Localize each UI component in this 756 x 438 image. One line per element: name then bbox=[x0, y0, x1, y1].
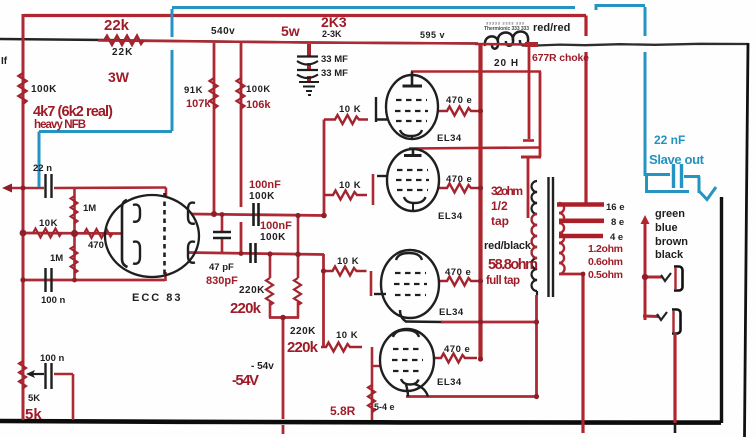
grid lead V1 bbox=[376, 97, 388, 122]
tap 4 ohm bbox=[559, 234, 603, 239]
svg-text:red/red: red/red bbox=[533, 22, 570, 34]
resistor 22K 3W (red overdrawn zigzag) bbox=[104, 36, 144, 45]
svg-text:220K: 220K bbox=[239, 285, 265, 296]
svg-text:470 e: 470 e bbox=[444, 344, 470, 355]
inductor choke 20H bbox=[485, 32, 528, 49]
wire: secondary bottom to ground x583 bbox=[559, 273, 583, 276]
svg-text:1.2ohm: 1.2ohm bbox=[588, 243, 623, 255]
resistor 1M x2 vertical bbox=[73, 189, 76, 280]
svg-text:540v: 540v bbox=[211, 26, 235, 37]
wire: transformer primary bottom drop bbox=[535, 295, 538, 397]
svg-text:10K: 10K bbox=[39, 218, 58, 229]
svg-text:heavy NFB: heavy NFB bbox=[34, 119, 86, 131]
svg-text:470: 470 bbox=[88, 240, 104, 251]
svg-text:220K: 220K bbox=[290, 326, 316, 337]
ground symbol bbox=[299, 82, 319, 95]
svg-text:ECC 83: ECC 83 bbox=[132, 292, 183, 304]
wire: to jack1 bbox=[645, 276, 663, 279]
feedback line y233 with 10K and 470 bbox=[23, 232, 121, 235]
svg-text:830pF: 830pF bbox=[206, 275, 238, 287]
blue output check arrow bbox=[699, 187, 716, 200]
capacitor 100nF/100K coupling (wire A) bbox=[252, 203, 255, 226]
wire: tube4 bottom line y396 bbox=[406, 395, 537, 398]
svg-text:black: black bbox=[655, 249, 684, 261]
svg-text:If: If bbox=[1, 56, 8, 67]
speaker jack 2 bbox=[672, 310, 681, 334]
svg-text:595 v: 595 v bbox=[420, 30, 445, 40]
wire: red top rail y15 bbox=[24, 14, 586, 17]
svg-text:EL34: EL34 bbox=[438, 211, 463, 222]
svg-text:red/black: red/black bbox=[484, 240, 532, 252]
speaker jack 1 bbox=[674, 267, 683, 291]
grid lead V3 bbox=[374, 293, 386, 295]
resistor 10K g1 bbox=[324, 115, 368, 124]
wire: pot cap to ground bbox=[54, 373, 73, 376]
svg-text:8 e: 8 e bbox=[611, 217, 624, 228]
wire: drop to transformer primary bbox=[527, 157, 530, 218]
capacitor 100n cathode bypass bbox=[44, 268, 46, 292]
blue NFB horizontal y131 bbox=[39, 130, 172, 133]
ECC83 inner bracket upper bbox=[133, 205, 140, 222]
svg-text:4k7 (6k2 real): 4k7 (6k2 real) bbox=[33, 104, 113, 120]
svg-text:107k: 107k bbox=[186, 98, 211, 110]
svg-text:brown: brown bbox=[655, 236, 688, 248]
svg-text:16 e: 16 e bbox=[606, 202, 625, 213]
svg-text:1M: 1M bbox=[50, 253, 63, 264]
resistor 220K right bbox=[297, 254, 300, 278]
capacitor 33MF x2 with feed wire bbox=[307, 44, 311, 56]
svg-text:58.8ohm: 58.8ohm bbox=[488, 257, 538, 273]
capacitor 47pF/830pF bridge bbox=[221, 214, 224, 231]
svg-text:10 K: 10 K bbox=[337, 256, 359, 267]
wire: y322 red to transformer bottom bbox=[441, 321, 537, 324]
tube EL34 V2 bbox=[377, 149, 439, 212]
svg-text:22 nF: 22 nF bbox=[654, 133, 685, 147]
svg-text:22k: 22k bbox=[104, 17, 130, 34]
wire: to jack2 bbox=[643, 315, 659, 319]
svg-text:100nF: 100nF bbox=[249, 179, 281, 191]
wire: tube1 anode line y71 bbox=[411, 70, 541, 73]
wire: red right drop from top rail to 16ohm tap bbox=[584, 16, 587, 37]
resistor 220K left bbox=[269, 254, 272, 278]
blue slave out network bbox=[645, 173, 670, 176]
svg-text:10 K: 10 K bbox=[339, 104, 361, 115]
border: right inner vertical bbox=[720, 197, 723, 423]
resistor 100K / 106k vertical bbox=[240, 43, 243, 207]
tap 16 ohm bbox=[557, 202, 604, 207]
wire: anode line B y253 bbox=[188, 253, 324, 255]
wire: vertical x540 bbox=[539, 72, 542, 158]
resistor 5.8R cathode (vertical zigzag) bbox=[368, 385, 375, 413]
svg-text:5K: 5K bbox=[28, 393, 40, 404]
wire: y188 to grid bbox=[54, 186, 166, 189]
wire: grid bus vertical x324 bbox=[323, 120, 326, 216]
svg-text:green: green bbox=[655, 208, 685, 220]
svg-text:33333 3333 333: 33333 3333 333 bbox=[486, 21, 525, 26]
svg-text:10 K: 10 K bbox=[336, 330, 358, 341]
resistor 470 tube4 bbox=[435, 354, 477, 363]
svg-text:47 pF: 47 pF bbox=[209, 262, 234, 273]
border: right outer edge bbox=[745, 43, 749, 437]
wire: bias -54V drop bbox=[282, 318, 285, 420]
wire: black dashed line choke to right border bbox=[536, 44, 748, 46]
wire: bottom ground bus (black) bbox=[0, 421, 721, 423]
svg-text:tap: tap bbox=[491, 214, 509, 228]
resistor 470 tube3 bbox=[439, 277, 480, 286]
wire: tube3 anode/cathode line y322 (black part) bbox=[405, 320, 443, 323]
capacitor 100n pot bbox=[44, 363, 46, 389]
cathode lead V3 bbox=[400, 310, 406, 322]
node: choke output junction bbox=[525, 42, 538, 47]
svg-text:10 K: 10 K bbox=[339, 180, 361, 191]
svg-text:22 n: 22 n bbox=[33, 163, 52, 174]
svg-text:5-4 e: 5-4 e bbox=[374, 402, 395, 412]
ECC83 grid dashed bbox=[163, 193, 166, 276]
svg-text:0.6ohm: 0.6ohm bbox=[588, 256, 623, 268]
svg-text:5.8R: 5.8R bbox=[330, 404, 356, 418]
svg-text:22K: 22K bbox=[112, 47, 133, 58]
tube EL34 V4 bbox=[380, 329, 434, 397]
wire: vertical x529 from choke junction bbox=[528, 46, 531, 139]
blue slave bracket top bbox=[596, 4, 645, 7]
wire: jack2 down to bottom bbox=[673, 333, 676, 423]
svg-text:EL34: EL34 bbox=[439, 307, 464, 318]
blue slave vertical bbox=[644, 7, 647, 36]
svg-text:100K: 100K bbox=[246, 84, 271, 95]
potentiometer 5K bbox=[19, 361, 26, 389]
svg-text:33 MF: 33 MF bbox=[321, 54, 348, 65]
svg-text:33 MF: 33 MF bbox=[321, 68, 348, 79]
svg-text:5k: 5k bbox=[25, 406, 42, 423]
svg-text:100K: 100K bbox=[260, 232, 286, 243]
tap 8 ohm bbox=[559, 219, 604, 224]
svg-text:blue: blue bbox=[655, 222, 678, 234]
wire: black top-left bus line bbox=[0, 39, 478, 44]
svg-text:470 e: 470 e bbox=[446, 174, 472, 185]
svg-text:677R choke: 677R choke bbox=[532, 52, 589, 64]
wire: grid stub tube3 bbox=[370, 271, 373, 296]
resistor 10K g3 bbox=[324, 267, 367, 276]
wire: anode line A y214 bbox=[192, 214, 324, 216]
svg-text:2-3K: 2-3K bbox=[322, 29, 342, 39]
cathode line y280 bbox=[23, 279, 165, 282]
node: 220K join bar bbox=[269, 316, 299, 319]
transformer secondary coil (red) bbox=[559, 203, 565, 274]
wire: grid stub tube2 bbox=[372, 174, 375, 205]
svg-text:100 n: 100 n bbox=[40, 353, 64, 364]
svg-text:0.5ohm: 0.5ohm bbox=[588, 269, 623, 281]
svg-text:100K: 100K bbox=[249, 191, 275, 202]
tube EL34 V1 bbox=[376, 72, 438, 140]
capacitor 100nF/100K coupling (wire B) bbox=[249, 243, 252, 263]
svg-text:EL34: EL34 bbox=[437, 133, 462, 144]
svg-text:1/2: 1/2 bbox=[491, 199, 508, 213]
ECC83 inner bracket lower bbox=[133, 242, 140, 264]
capacitor 22nF slave bbox=[672, 164, 675, 188]
svg-text:470 e: 470 e bbox=[445, 267, 471, 278]
svg-text:-54V: -54V bbox=[232, 372, 259, 389]
svg-text:91K: 91K bbox=[184, 85, 203, 96]
blue NFB drop to input bbox=[38, 132, 41, 188]
ECC83 left anode plate bbox=[122, 200, 128, 267]
resistor 91K / 107k vertical bbox=[213, 43, 216, 214]
svg-text:1M: 1M bbox=[83, 203, 96, 214]
svg-text:3W: 3W bbox=[108, 69, 130, 85]
wire: red under choke bbox=[475, 43, 531, 46]
svg-text:20 H: 20 H bbox=[494, 58, 519, 69]
wire: tube2 anode line y148 bbox=[409, 148, 540, 149]
cathode lead V4 bbox=[406, 385, 408, 397]
ECC83 right brackets bbox=[188, 203, 195, 224]
svg-text:Thermionic 333 333: Thermionic 333 333 bbox=[484, 26, 529, 32]
blue NFB left vertical bbox=[171, 9, 174, 37]
wire: tube4 grid/cathode vertical bbox=[371, 347, 374, 420]
svg-text:470 e: 470 e bbox=[446, 95, 472, 106]
tube ECC83 bbox=[105, 193, 199, 277]
svg-text:EL34: EL34 bbox=[437, 377, 462, 388]
wire: left main vertical rail x23 bbox=[22, 14, 25, 420]
grid lead V2 bbox=[377, 175, 388, 177]
svg-text:100K: 100K bbox=[31, 84, 57, 95]
resistor 10K g2 bbox=[324, 191, 367, 200]
svg-text:Slave out: Slave out bbox=[649, 152, 705, 167]
wire: speaker feed x645 with up arrow bbox=[644, 222, 647, 320]
svg-text:220k: 220k bbox=[287, 339, 319, 356]
input wire y188 with arrow bbox=[8, 187, 44, 190]
svg-text:106k: 106k bbox=[246, 99, 271, 111]
svg-text:2K3: 2K3 bbox=[321, 14, 347, 30]
svg-text:100nF: 100nF bbox=[260, 220, 292, 232]
svg-text:100 n: 100 n bbox=[41, 295, 65, 306]
wire: B+ rail (thick, choke input down) bbox=[478, 44, 482, 361]
capacitor 22n input bbox=[44, 174, 46, 198]
blue NFB top line bbox=[39, 4, 716, 200]
svg-text:5w: 5w bbox=[281, 23, 300, 39]
svg-text:full tap: full tap bbox=[486, 275, 520, 287]
svg-text:220k: 220k bbox=[230, 300, 262, 317]
tube EL34 V3 bbox=[374, 250, 439, 322]
transformer core bbox=[549, 177, 554, 297]
svg-text:4 e: 4 e bbox=[610, 232, 623, 243]
wire: grid bus vertical x323 lower bbox=[322, 254, 325, 347]
resistor 100K (left vertical) bbox=[19, 73, 27, 105]
svg-text:32ohm: 32ohm bbox=[491, 184, 523, 198]
transformer primary coil (black with red overdraw) bbox=[532, 181, 538, 295]
resistor 470 tube1 (screen) bbox=[437, 107, 479, 116]
svg-text:- 54v: - 54v bbox=[251, 361, 274, 372]
wire: link A to B x298 bbox=[297, 215, 300, 254]
wire: cathode stub into ECC83 bbox=[164, 272, 167, 281]
wire: red overdraw of top bus bbox=[98, 41, 477, 44]
node: plate bar y157 bbox=[521, 156, 541, 159]
resistor 470 tube2 bbox=[438, 184, 479, 193]
resistor 10K g4 bbox=[321, 343, 362, 352]
